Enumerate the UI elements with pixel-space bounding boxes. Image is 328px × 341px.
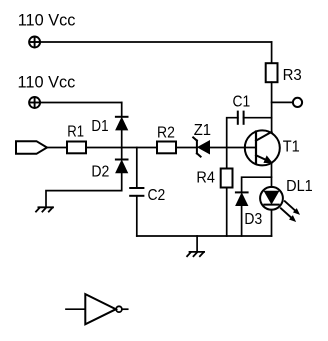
ground (middle) xyxy=(187,252,204,256)
svg-text:D1: D1 xyxy=(91,118,108,135)
input tag xyxy=(16,141,47,154)
svg-text:R1: R1 xyxy=(67,124,84,141)
svg-text:R4: R4 xyxy=(196,169,215,186)
wire main to C2 xyxy=(136,148,138,189)
svg-text:T1: T1 xyxy=(283,139,300,156)
svg-text:R3: R3 xyxy=(283,67,302,84)
resistor R4 xyxy=(221,169,233,188)
wire Vcc2 down to D1 xyxy=(121,103,123,117)
terminal output (open circle) xyxy=(293,98,302,107)
LED arrow 1 xyxy=(283,199,302,217)
svg-text:R2: R2 xyxy=(157,125,175,142)
LED arrow 2 xyxy=(279,206,298,224)
capacitor C2 xyxy=(130,188,143,196)
wire R1 to R2 (main) xyxy=(86,147,157,149)
transistor T1 xyxy=(245,130,280,165)
wire to middle ground xyxy=(196,236,198,252)
zener diode Z1 xyxy=(193,137,209,156)
wire input to R1 xyxy=(47,147,67,149)
wire D3 to bottom rail xyxy=(241,206,243,237)
svg-text:D3: D3 xyxy=(244,211,262,228)
LED DL1 xyxy=(260,187,283,210)
wire Z1 to base xyxy=(210,147,257,149)
svg-text:D2: D2 xyxy=(91,163,109,180)
terminal +V1 xyxy=(29,37,40,48)
svg-text:Z1: Z1 xyxy=(194,122,211,139)
resistor R1 xyxy=(67,142,86,154)
wire R2 to Z1 xyxy=(176,147,197,149)
wire emitter down to LED xyxy=(271,163,273,187)
wire C1 left plate down to R4 xyxy=(227,118,238,169)
diode D2 xyxy=(116,160,128,173)
svg-text:110 Vcc: 110 Vcc xyxy=(18,12,76,30)
capacitor C1 xyxy=(238,112,244,124)
diode D1 xyxy=(116,117,128,130)
resistor R3 xyxy=(266,63,278,82)
wire D2 to ground xyxy=(46,173,122,208)
wire Vcc1 down to R3 xyxy=(271,42,273,63)
wire LED to bottom rail xyxy=(271,210,273,236)
diode D3 xyxy=(236,192,248,205)
wire emitter branch to D3 xyxy=(242,177,272,192)
svg-text:C2: C2 xyxy=(148,187,166,204)
svg-text:DL1: DL1 xyxy=(286,178,313,195)
wire D1 to main xyxy=(121,130,123,148)
wire Vcc1 horizontal xyxy=(40,41,271,43)
wire C2 to bottom rail xyxy=(136,196,138,236)
wire collector column xyxy=(271,82,273,132)
wire Vcc2 horizontal xyxy=(40,102,122,104)
resistor R2 xyxy=(157,142,176,154)
ground (left) xyxy=(36,207,53,211)
terminal +V2 xyxy=(29,97,40,108)
wire to output terminal xyxy=(272,101,293,103)
wire bottom rail xyxy=(137,235,272,237)
wire C1 right plate to collector column xyxy=(244,117,272,119)
wire main to D2 xyxy=(121,148,123,160)
svg-text:110 Vcc: 110 Vcc xyxy=(18,74,76,92)
svg-text:C1: C1 xyxy=(233,93,251,110)
wire R4 to bottom rail xyxy=(226,188,228,237)
NOT gate (inverter) xyxy=(66,294,128,324)
